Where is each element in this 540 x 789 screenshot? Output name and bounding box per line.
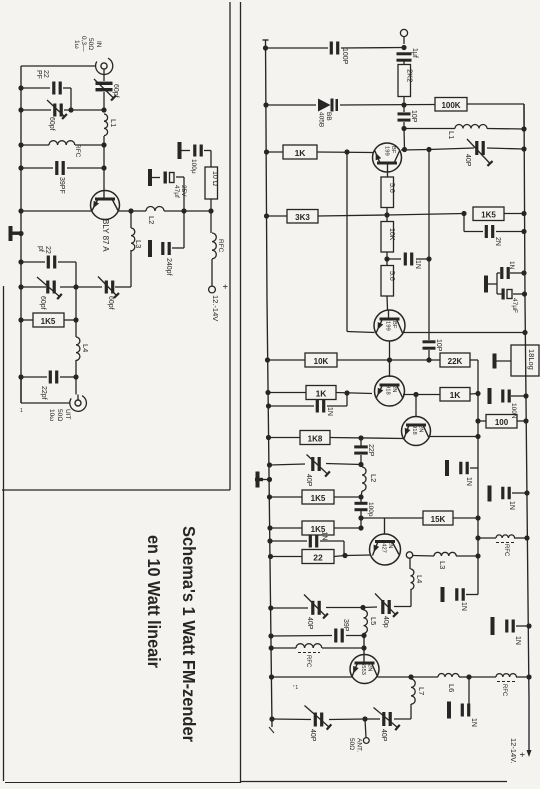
wire: BLY87A base stub [103, 191, 105, 198]
wire: 1N branch x=469 [468, 677, 470, 710]
node: right bus y=149 [521, 146, 526, 151]
wire: RFC row y=538 [478, 537, 527, 539]
inductor L1 (P2) [455, 125, 487, 129]
svg-text:47μF: 47μF [511, 298, 518, 313]
capacitor 40P trimmer #4 (row719) [374, 708, 400, 731]
wire: 100N to bus [511, 395, 526, 397]
wire: Q5 emitter row [272, 676, 353, 678]
resistor 1K5 (box right) [473, 207, 504, 221]
wire: Q3b base riser [415, 395, 417, 418]
node: bus y=287 [18, 284, 23, 289]
wire: 2N cap branch [464, 214, 524, 232]
wire: P1 row y=287 [21, 286, 131, 288]
wire: 1N stub y=626 [516, 625, 529, 627]
svg-text:12-14V.: 12-14V. [509, 738, 518, 764]
node: x=478 y=538 [475, 535, 480, 540]
label 40P #3 (row719) [309, 729, 316, 742]
title line 1 'Schema's 1 Watt FM-zender' (rotated) [179, 526, 199, 742]
resistor 15K (box) [423, 511, 453, 525]
label 100N [510, 403, 517, 419]
wire: Q2 right wire [403, 332, 526, 334]
svg-text:10K: 10K [388, 228, 395, 241]
resistor 1K5 #2 (box) [302, 521, 334, 535]
capacitor 39PF [55, 161, 65, 175]
node: right bus y=332.5 [522, 330, 527, 335]
node: x=478 y=421 [475, 418, 480, 423]
node: x=365 y=719 [362, 716, 367, 721]
svg-text:L3: L3 [134, 240, 143, 248]
label mark 1 [293, 685, 298, 691]
capacitor 1N (Q3 base) [316, 400, 326, 413]
ground: 1N ground (y=493) [488, 486, 492, 502]
wire: P2 right bus arrow [527, 750, 532, 757]
label 1N (Q1 chain) [414, 260, 421, 269]
svg-text:1N: 1N [514, 636, 521, 645]
inductor L4 [76, 337, 80, 360]
svg-text:60pf: 60pf [112, 84, 119, 98]
label + 12-14V (P2) [509, 738, 527, 764]
node: right bus y=129 [521, 126, 526, 131]
svg-text:L1: L1 [447, 131, 456, 139]
wire: 240pf branch [172, 211, 184, 248]
svg-text:1N: 1N [414, 260, 421, 269]
wire: Q5 collector row [378, 676, 439, 678]
svg-text:40P: 40P [306, 617, 313, 630]
wire: row y=129 [404, 128, 524, 131]
wire: P1 row y=377 [21, 376, 76, 378]
title line 2 'en 10 Watt lineair' (rotated) [144, 535, 164, 668]
wire: P1 row y=88 [21, 87, 71, 89]
wire: RFC to bus [516, 676, 529, 678]
wire: row y=719 [272, 718, 380, 721]
component 18Log box [511, 345, 539, 376]
capacitor 1N (x=469) [461, 704, 471, 717]
node: x=429 y=149.5 [426, 147, 431, 152]
svg-text:47μf: 47μf [173, 185, 180, 198]
wire: row y=105 [266, 104, 524, 105]
wire: P2 left bus [266, 40, 273, 727]
label 40P #1 (row608) [306, 617, 313, 630]
node: bus y=88 [18, 85, 23, 90]
node: input bus junction y=110 [101, 107, 106, 112]
capacitor 1N (y=626) [505, 620, 515, 633]
label 240pf [165, 258, 172, 276]
label 1N (Q4 base) [321, 532, 328, 541]
svg-text:1K5: 1K5 [311, 494, 326, 503]
wire: L3 riser [130, 211, 132, 287]
svg-text:1K5: 1K5 [481, 211, 496, 220]
svg-text:1N: 1N [470, 718, 477, 727]
svg-text:5.6: 5.6 [388, 183, 395, 193]
node: x=387 y=215 [384, 212, 389, 217]
capacitor 40P trimmer #3 (row719) [305, 706, 332, 730]
node: bus y=233 [18, 231, 23, 236]
wire: collector row to L2 [131, 210, 146, 212]
svg-text:UIT: UIT [64, 409, 71, 420]
capacitor 1N (y=493) [501, 487, 511, 500]
node: collector junction x=131 [128, 208, 133, 213]
node: bus y=556.5 [268, 554, 273, 559]
svg-text:+: + [220, 284, 230, 289]
node: right bus y=294 [522, 291, 527, 296]
wire: emitter to bus y=211 [21, 210, 92, 212]
node: bus y=608 [268, 605, 273, 610]
node: x=389.5 y=360 [387, 357, 392, 362]
svg-text:2N: 2N [391, 385, 397, 392]
svg-text:PF: PF [35, 70, 42, 79]
node: bus y=216 [264, 213, 269, 218]
diode BB405B varicap [318, 99, 338, 112]
svg-text:22: 22 [44, 246, 51, 254]
connector ANT terminal [363, 738, 369, 744]
wire: 1N/47uF left join [497, 273, 502, 294]
resistor 1K #2 (box) [440, 388, 470, 402]
wire: x=404 y=128.5-149.5 [403, 129, 406, 150]
node: x=478 y=436.5 [475, 434, 480, 439]
svg-text:L3: L3 [438, 561, 447, 569]
label RFC (Q4 supply) [503, 544, 509, 557]
label L1 (P2) [447, 131, 456, 139]
wire: L1 to node y=145 [103, 136, 105, 145]
svg-text:Schema's 1 Watt FM-zender: Schema's 1 Watt FM-zender [179, 526, 199, 742]
capacitor 22pf (2nd) [47, 256, 57, 269]
wire: row y=465 [270, 464, 362, 466]
capacitor 2N [485, 225, 495, 238]
capacitor 1N (Q4 base) [309, 535, 319, 548]
wire: 22P stubs [360, 438, 362, 465]
svg-text:1N: 1N [465, 477, 472, 486]
svg-text:ANT.: ANT. [356, 738, 363, 752]
wire: 1K5#2 row [270, 527, 361, 529]
svg-text:2K2: 2K2 [406, 69, 415, 82]
label 1N (y=594) [460, 602, 467, 611]
ground: P2 bus ground [255, 472, 270, 488]
svg-text:199: 199 [385, 321, 391, 331]
resistor 1K (box Q3 base) [306, 386, 336, 400]
wire: P1 input top wire [21, 65, 96, 67]
svg-text:⌜1: ⌜1 [293, 685, 298, 691]
node: bus y=437.5 [266, 435, 271, 440]
label L2 (P2) [369, 474, 378, 482]
svg-text:240pf: 240pf [165, 258, 172, 276]
svg-text:1K: 1K [295, 148, 307, 158]
resistor 22K (box) [440, 353, 470, 367]
svg-text:60pf: 60pf [39, 296, 46, 310]
transistor Q3b 2N918 [402, 417, 431, 446]
label 2N 918 (Q3b) [411, 425, 424, 435]
wire: Q3 right wire [403, 394, 478, 395]
node: x=387 y=259 [384, 256, 389, 261]
inductor RFC (Q4 supply) [496, 535, 515, 543]
wire: P1 row y=320 [21, 319, 76, 321]
label L4 [81, 344, 90, 352]
capacitor 22PF [52, 82, 62, 95]
wire: 22 row [271, 555, 372, 557]
label 100p (x=361) [367, 502, 374, 517]
svg-text:L4: L4 [415, 575, 424, 583]
wire: bus bottom corner to UIT [21, 377, 70, 403]
wire: page bottom border [5, 782, 507, 783]
wire: P1 row y=168 [21, 167, 104, 169]
svg-text:405B: 405B [318, 112, 325, 127]
ground: 1N ground (y=626) [491, 617, 495, 635]
svg-text:199: 199 [384, 146, 390, 156]
label 40P (row465) [305, 474, 312, 487]
capacitor 22P [354, 445, 368, 454]
capacitor 40P trimmer #1 (row608) [304, 595, 328, 619]
node: right bus y=677 [526, 674, 531, 679]
svg-text:18Log: 18Log [527, 349, 536, 370]
svg-text:50Ω: 50Ω [87, 38, 94, 50]
svg-text:L2: L2 [147, 216, 156, 224]
transistor Q2 BF199 [374, 310, 405, 342]
label 2N 4427 (Q4) [381, 540, 394, 553]
resistor 1K (Q1 base box) [283, 145, 317, 159]
inductor L3 (P2) [434, 552, 456, 556]
wire: P1 main ground bus (x=21) [20, 66, 22, 403]
label 1N (y=626) [514, 636, 521, 645]
svg-text:1K5: 1K5 [41, 317, 56, 326]
inductor RFC (base) [49, 141, 75, 145]
node: right bus y=231.5 [521, 229, 526, 234]
node: x=429 y=360 [426, 357, 431, 362]
inductor L1 [104, 114, 108, 136]
connector 12-14V terminal [209, 286, 216, 293]
svg-text:BF: BF [391, 321, 397, 329]
wire: P2 right bus [524, 104, 529, 752]
label 60pf #4 [107, 296, 114, 310]
capacitor 47uf 25V electrolytic [164, 172, 175, 184]
svg-text:918: 918 [411, 425, 417, 435]
node: x=104 y=145 [101, 142, 106, 147]
wire: P1 row y=110 [21, 109, 104, 111]
node: bus y=211 [18, 208, 23, 213]
label 2N 918 (Q3) [385, 385, 398, 395]
inductor L5 [364, 610, 368, 633]
label RFC (Q5 base) [305, 655, 311, 668]
wire: 1N stub y=468 [470, 467, 478, 469]
capacitor 60pf trimmer #2 [47, 100, 67, 119]
svg-text:BF: BF [390, 146, 396, 154]
capacitor 1N (x=478) [459, 462, 469, 475]
capacitor 40P trimmer (row465) [307, 455, 330, 477]
node: x=361 y=464.5 [358, 462, 363, 467]
svg-text:22: 22 [313, 553, 323, 563]
wire: 3K3 row [267, 214, 525, 217]
node: bus y=152 [264, 149, 269, 154]
wire: x=104 y=168-191 [103, 168, 105, 191]
svg-text:1K: 1K [450, 390, 462, 400]
capacitor 40P trimmer #2 (row608) [375, 594, 398, 617]
label 1N (x=478) [465, 477, 472, 486]
wire: right panel left border (x=240) [240, 2, 242, 783]
label 40p #2 (row608) [382, 616, 389, 628]
node: junction x=71 y=110 [68, 107, 73, 112]
label 47uf 25V [173, 185, 187, 198]
svg-text:4427: 4427 [381, 540, 387, 553]
capacitor 1N (y=594) [455, 588, 478, 601]
wire: Q2 base left wire [347, 332, 375, 333]
label 60pf #2 [48, 117, 55, 131]
node: x=429 y=259 [426, 256, 431, 261]
label 100P [341, 48, 348, 65]
node: x=104 y=168 [101, 165, 106, 170]
ground: 1N ground (x=469) [447, 702, 451, 719]
wire: 1N stub y=493 [512, 492, 527, 494]
resistor 5.6 (box) [381, 177, 395, 208]
resistor 5.6 #2 (box) [381, 266, 395, 297]
svg-text:1μf: 1μf [411, 48, 418, 58]
label 1N (x=469) [470, 718, 477, 727]
label L7 [417, 687, 426, 695]
svg-text:3K3: 3K3 [295, 213, 310, 222]
node: bus y=320 [18, 317, 23, 322]
node: x=347 y=393 [344, 390, 349, 395]
capacitor 40P trimmer (Q1) [467, 139, 493, 166]
ground: 1N ground (x=478) [445, 460, 449, 476]
resistor 100 (box) [486, 415, 517, 429]
capacitor 47uF electrolytic [502, 289, 513, 300]
node: x=404 y=128.5 [401, 126, 406, 131]
label 22P [367, 444, 374, 457]
node: x=76 y=287 [73, 284, 78, 289]
svg-text:L7: L7 [417, 687, 426, 695]
label L3 (P2) [438, 561, 447, 569]
label 1uf [411, 48, 418, 58]
node: x=404.5 y=149.5 [402, 147, 407, 152]
node: bus y=145 [18, 142, 23, 147]
resistor 1K5 #1 (box) [302, 490, 334, 504]
svg-text:100p: 100p [367, 502, 374, 517]
wire: 100p stubs [360, 497, 362, 528]
ground: 1N ground (y=594) [441, 587, 445, 602]
node: bus y=528 [267, 525, 272, 530]
capacitor 1N (y=273) [500, 267, 510, 279]
wire: 10K stubs [386, 215, 388, 259]
node: x=361 y=528 [358, 525, 363, 530]
node: right bus y=273 [521, 270, 526, 275]
label 60pf [112, 84, 119, 98]
resistor 100K (box) [435, 98, 467, 112]
wire: x=76 to UIT top [75, 377, 77, 395]
node: x=184 y=211 [181, 208, 186, 213]
label 2N 3553 (Q5) [360, 662, 373, 675]
capacitor 22pf (output) [49, 371, 59, 384]
svg-text:10P: 10P [410, 110, 417, 123]
label RFC supply [217, 239, 224, 253]
wire: 1K5 row y=497 [270, 496, 362, 498]
label IN 50ohm 0.3W-1W [73, 36, 102, 52]
svg-text:RFC: RFC [74, 144, 81, 158]
node: bus y=479.5 [267, 477, 272, 482]
resistor 2K2 (box) [398, 65, 415, 97]
node: bus y=497 [267, 494, 272, 499]
ground: 240pf ground [148, 240, 152, 257]
transistor Q5 2N3553 [350, 636, 379, 684]
svg-text:1N: 1N [326, 407, 333, 416]
label 100u [190, 159, 197, 174]
ground: 47uf ground [148, 169, 160, 186]
node: x=478 y=393.5 [475, 391, 480, 396]
svg-text:1ω: 1ω [73, 40, 80, 49]
inductor L2 (P2) [362, 467, 366, 491]
capacitor 10P (x=429) [423, 340, 436, 349]
wire: 1N row y=541 [270, 541, 344, 555]
label L2 [147, 216, 156, 224]
wire: x=429 riser [428, 150, 430, 361]
svg-text:L4: L4 [81, 344, 90, 352]
svg-text:25V: 25V [180, 185, 187, 197]
label BF 199 (Q1) [384, 146, 397, 156]
label ANT 50ohm [348, 738, 363, 752]
inductor L6 [438, 674, 459, 678]
connector UIT socket [70, 395, 87, 412]
node: x=361 y=497 [358, 494, 363, 499]
label 22 PF [35, 70, 49, 79]
wire: trimmer to node [103, 92, 105, 110]
resistor 10 ohm (box) [205, 167, 218, 199]
svg-text:60pf: 60pf [107, 296, 114, 310]
label BB 405B [318, 112, 333, 127]
node: x=464 y=213.5 [461, 211, 466, 216]
wire: 15K row [361, 517, 478, 519]
wire: P1 RFC row y=145 [21, 144, 104, 146]
svg-text:L2: L2 [369, 474, 378, 482]
node: x=345 y=555.5 [342, 553, 347, 558]
wire: 10P stubs [403, 105, 405, 129]
node: x=211 y=211 [208, 208, 213, 213]
ground: 100N ground [488, 388, 492, 404]
svg-text:1N: 1N [508, 261, 515, 270]
svg-text:22: 22 [42, 70, 49, 78]
label BLY 87 A [101, 219, 110, 252]
node: x=478 y=518 [475, 515, 480, 520]
wire: x=104 y=145-168 [103, 145, 105, 168]
svg-text:3553: 3553 [360, 662, 366, 675]
capacitor 60pf trimmer #3 [37, 277, 62, 299]
wire: 1N stub y=273 [510, 272, 524, 274]
capacitor 100u [193, 145, 203, 157]
connector aerial terminal [400, 29, 407, 44]
wire: L3 row [413, 555, 478, 558]
label tick 1 [20, 408, 23, 414]
node: x=364 y=635.5 [361, 633, 366, 638]
capacitor 100p (x=361) [355, 502, 368, 511]
node: x=76 y=320 [73, 317, 78, 322]
wire: 47uF stub y=294 [513, 293, 525, 295]
svg-text:L6: L6 [447, 684, 456, 692]
wire: left panel right border (x=230) [229, 2, 231, 490]
wire: Q2 bottom stub [389, 341, 391, 360]
wire: 5.6#2 stubs [386, 259, 389, 310]
svg-text:L5: L5 [369, 617, 378, 625]
wire: P1 row y=262 [21, 262, 76, 287]
transistor Q4 2N4427 [370, 518, 401, 565]
wire: 1N branch y=406 [269, 393, 348, 406]
capacitor 100N [501, 390, 511, 403]
node: bus y=406 [266, 403, 271, 408]
svg-text:1N: 1N [321, 532, 328, 541]
inductor L4 (P2) [411, 569, 414, 589]
svg-text:1N: 1N [460, 602, 467, 611]
wire: 39P row y=636 [271, 635, 364, 638]
svg-text:0,3—: 0,3— [80, 36, 87, 52]
capacitor 1N (Q1 chain) [404, 253, 414, 266]
label 22pf (output) [40, 386, 47, 400]
resistor 22 (box) [302, 550, 334, 564]
label L3 [134, 240, 143, 248]
node: bus y=636 [268, 633, 273, 638]
